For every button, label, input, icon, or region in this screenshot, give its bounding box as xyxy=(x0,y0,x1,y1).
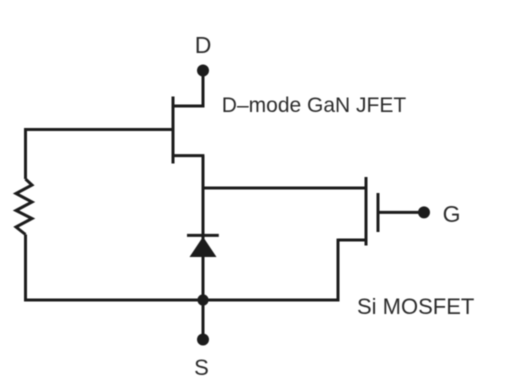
svg-text:Si MOSFET: Si MOSFET xyxy=(357,294,474,319)
wire bottom rail xyxy=(24,299,339,302)
wire MOSFET source vertical xyxy=(337,239,340,302)
wire mid node vertical xyxy=(202,156,205,300)
svg-text:D: D xyxy=(195,32,212,58)
terminal G dot xyxy=(418,206,430,218)
junction node xyxy=(197,294,208,305)
diode D1 MOSFET body diode xyxy=(187,235,219,257)
transistor U1 D-mode GaN JFET xyxy=(172,97,205,164)
wire JFET gate lead xyxy=(24,128,173,131)
wire branch to MOSFET drain xyxy=(203,187,366,190)
svg-text:D–mode GaN JFET: D–mode GaN JFET xyxy=(222,94,407,117)
svg-text:S: S xyxy=(194,355,209,380)
transistor Q1 Si MOSFET xyxy=(338,177,378,246)
wire drain lead xyxy=(202,71,205,108)
wire left rail lower xyxy=(24,235,27,302)
wire MOSFET gate lead xyxy=(378,211,424,214)
terminal D dot xyxy=(197,65,209,77)
svg-text:G: G xyxy=(443,201,461,227)
wire left rail upper xyxy=(24,128,27,179)
resistor R1 xyxy=(16,179,32,235)
wire S lead xyxy=(202,300,205,340)
terminal S dot xyxy=(197,334,209,346)
